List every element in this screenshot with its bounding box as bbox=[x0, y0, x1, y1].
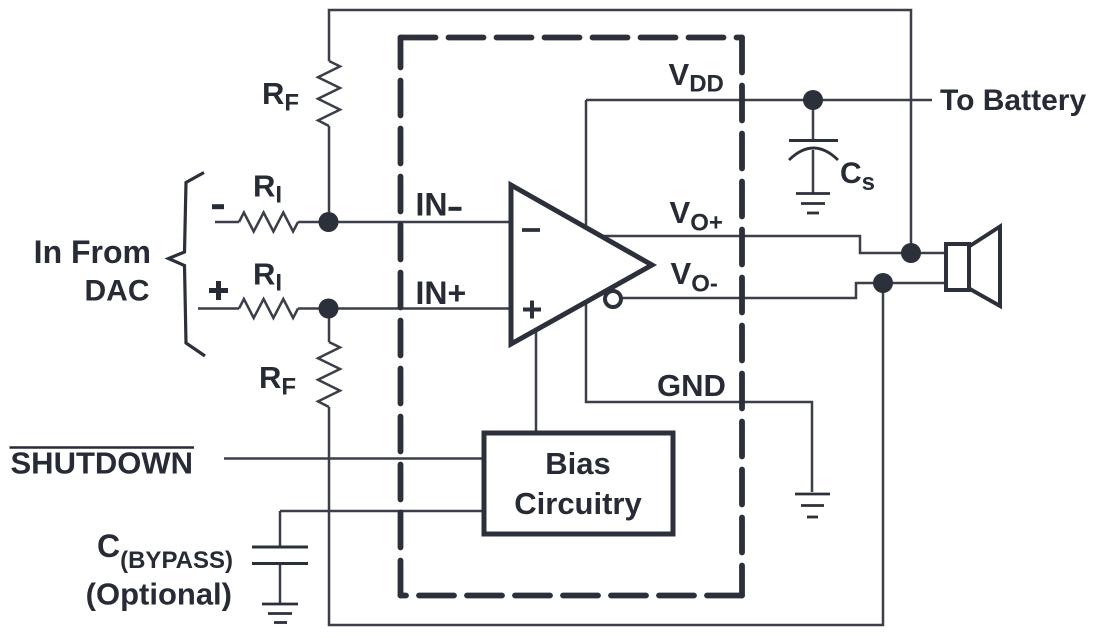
svg-text:Bias: Bias bbox=[545, 446, 610, 481]
svg-text:(Optional): (Optional) bbox=[86, 577, 232, 612]
svg-text:SHUTDOWN: SHUTDOWN bbox=[11, 446, 194, 481]
svg-text:IN+: IN+ bbox=[416, 275, 467, 311]
svg-text:In From: In From bbox=[34, 234, 151, 270]
svg-text:To Battery: To Battery bbox=[940, 84, 1086, 117]
svg-text:IN: IN bbox=[416, 187, 448, 223]
svg-text:Circuitry: Circuitry bbox=[514, 486, 642, 521]
svg-text:DAC: DAC bbox=[85, 275, 150, 308]
svg-text:GND: GND bbox=[657, 368, 726, 403]
